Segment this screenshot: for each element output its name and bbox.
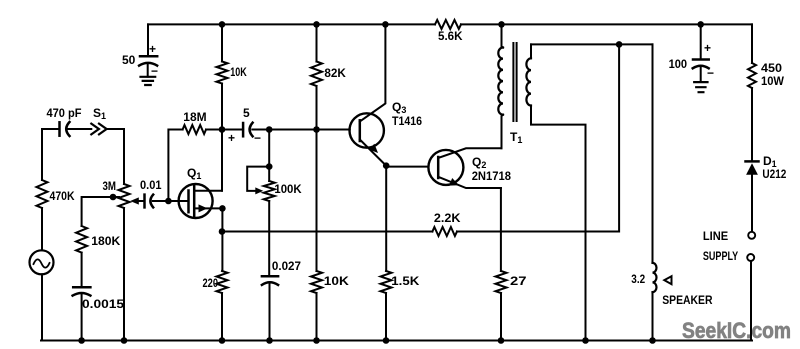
svg-text:SeekIC.com: SeekIC.com	[682, 318, 791, 343]
svg-text:100K: 100K	[274, 182, 302, 196]
svg-text:5: 5	[243, 106, 250, 120]
svg-text:0.01: 0.01	[140, 178, 162, 192]
svg-text:27: 27	[510, 274, 527, 288]
svg-text:10K: 10K	[230, 65, 247, 79]
svg-text:2N1718: 2N1718	[472, 169, 512, 183]
svg-text:18M: 18M	[183, 110, 206, 124]
svg-text:3M: 3M	[103, 179, 117, 193]
svg-text:180K: 180K	[91, 234, 120, 248]
svg-text:0.0015: 0.0015	[82, 297, 124, 311]
svg-text:0.027: 0.027	[272, 259, 301, 273]
svg-text:50: 50	[122, 53, 136, 67]
svg-text:U212: U212	[762, 167, 786, 181]
svg-text:82K: 82K	[324, 66, 346, 80]
svg-text:470 pF: 470 pF	[47, 106, 82, 120]
svg-text:470K: 470K	[50, 189, 75, 203]
svg-text:T1416: T1416	[392, 114, 422, 128]
svg-text:1.5K: 1.5K	[391, 274, 419, 288]
svg-text:2.2K: 2.2K	[434, 211, 461, 225]
svg-text:SPEAKER: SPEAKER	[662, 293, 713, 307]
svg-text:10W: 10W	[761, 74, 785, 88]
svg-text:100: 100	[669, 57, 688, 71]
svg-text:3.2: 3.2	[631, 272, 645, 286]
svg-text:+: +	[149, 42, 156, 56]
svg-text:LINE: LINE	[703, 229, 728, 243]
svg-text:10K: 10K	[324, 274, 349, 288]
svg-text:450: 450	[761, 61, 782, 75]
svg-text:5.6K: 5.6K	[438, 29, 463, 43]
svg-text:−: −	[707, 66, 714, 80]
svg-text:+: +	[228, 131, 235, 145]
svg-text:+: +	[704, 41, 711, 55]
svg-text:−: −	[254, 131, 261, 145]
svg-text:220: 220	[203, 276, 219, 290]
svg-text:SUPPLY: SUPPLY	[703, 249, 738, 263]
svg-text:−: −	[151, 64, 158, 78]
